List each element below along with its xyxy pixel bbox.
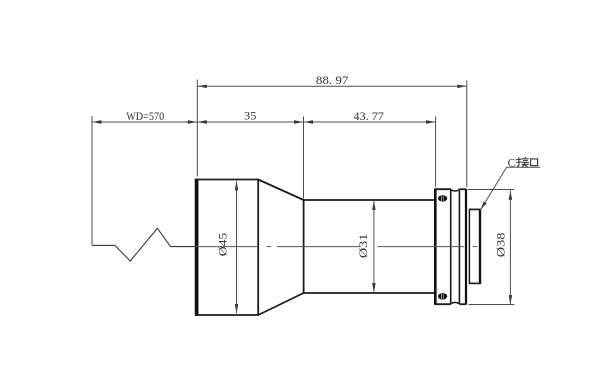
svg-text:Ø38: Ø38 bbox=[495, 232, 507, 257]
svg-text:Ø31: Ø31 bbox=[358, 233, 370, 258]
svg-text:WD=570: WD=570 bbox=[126, 109, 164, 123]
svg-text:88. 97: 88. 97 bbox=[316, 73, 349, 87]
svg-text:Ø45: Ø45 bbox=[217, 232, 229, 256]
svg-text:C: C bbox=[508, 157, 516, 169]
svg-text:35: 35 bbox=[244, 109, 256, 123]
svg-text:43. 77: 43. 77 bbox=[354, 109, 384, 123]
